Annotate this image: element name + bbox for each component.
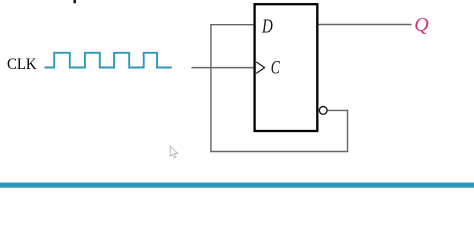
- Q output wire: [318, 24, 412, 26]
- wire feedback: bottom horizontal: [210, 151, 348, 153]
- wire CLK to C input: [191, 67, 254, 69]
- wire feedback: right vertical down: [347, 110, 349, 153]
- svg-text:D: D: [261, 16, 273, 38]
- mouse cursor: [170, 146, 177, 158]
- clock input dynamic-indicator triangle: [256, 62, 264, 74]
- wire feedback to D input: [210, 24, 254, 26]
- bottom teal bar: [0, 183, 474, 188]
- cropped text fragment (top edge): [73, 0, 76, 3]
- clock waveform: [45, 53, 172, 68]
- wire feedback: left vertical up: [210, 24, 212, 152]
- svg-text:Q: Q: [414, 14, 429, 36]
- svg-text:CLK: CLK: [7, 56, 37, 73]
- inversion bubble (Q-bar output): [319, 107, 327, 115]
- svg-text:C: C: [271, 59, 281, 79]
- flip-flop U1 box: [255, 4, 318, 131]
- wire feedback: bubble to right: [327, 109, 348, 111]
